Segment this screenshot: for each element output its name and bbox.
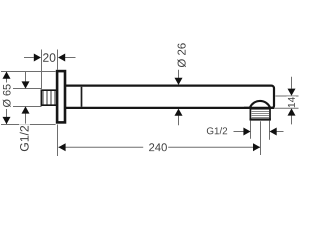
label: 20 — [42, 52, 57, 64]
wire: dim 240 line — [58, 146, 260, 148]
wire: pipe top extension — [13, 88, 42, 90]
arrow: G1/2 right outer (points left) — [270, 128, 277, 136]
wall flange escutcheon — [57, 71, 65, 122]
wire: G1/2 right extension left — [250, 121, 252, 139]
label: dia 65 (rotated) — [1, 83, 13, 110]
arrow: dia 65 bottom (points down) — [3, 117, 11, 124]
wire: dia 65 extension bottom — [1, 124, 56, 126]
wire: dim 240 extension left — [57, 125, 59, 157]
wire: dia 26 lower leader — [178, 115, 180, 126]
threaded wall pipe G1/2 — [41, 90, 56, 105]
shower arm tube body — [65, 86, 274, 108]
wire: dim 14 extension top — [275, 95, 298, 97]
label: dia 26 (rotated) — [177, 43, 185, 67]
wire: dim 14 upper tail — [291, 77, 293, 89]
wire: dim 14 lower tail — [291, 115, 293, 124]
wire: dia 65 extension top — [1, 71, 56, 73]
label: 240 — [143, 141, 168, 153]
wire: dim 20 right tail — [65, 57, 76, 59]
arrow: dim 14 top (points down) — [288, 89, 296, 96]
wire: G1/2 left lower leader — [25, 112, 27, 124]
wire: dim 14 extension bottom — [274, 107, 299, 109]
arrow: G1/2 right inner (points right) — [243, 128, 250, 136]
arrow: dim 240 left (points left) — [58, 143, 65, 151]
arrow: dim 20 left (points right) — [34, 54, 41, 62]
arrow: dia 65 top (points up) — [3, 72, 11, 79]
arrow: dim 20 right (points left) — [58, 54, 65, 62]
arrow: dia 26 bottom (points up) — [175, 109, 183, 116]
wire: G1/2 right leader tail — [234, 131, 245, 133]
outlet thread block G1/2 — [250, 109, 271, 120]
arrow: G1/2 left upper (points down) — [22, 81, 30, 88]
arrow: G1/2 left lower (points up) — [22, 106, 30, 113]
wire: dim 20 extension right — [57, 50, 59, 70]
label: 14 (rotated) — [287, 96, 297, 107]
label: G1/2 left (rotated) — [19, 124, 30, 154]
arrow: dim 240 right (points right) — [253, 143, 260, 151]
arrow: dia 26 top (points down) — [175, 78, 183, 85]
wire: G1/2 right outer tail — [276, 131, 284, 133]
wire: pipe bottom extension — [13, 106, 42, 108]
wire: dim 20 left tail — [24, 57, 34, 59]
wire: dim 20 extension left — [41, 50, 43, 90]
arrow: dim 14 bottom (points up) — [288, 108, 296, 115]
wire: tube bottom line over dome — [244, 107, 274, 109]
wire: G1/2 left upper leader — [25, 72, 27, 84]
outlet dome at right end — [250, 101, 270, 108]
wire: joint line between nut and tube — [81, 87, 83, 107]
wire: dia 65 dimension line — [6, 71, 8, 124]
wire: G1/2 right extension right — [269, 121, 271, 140]
label: G1/2 right — [207, 127, 227, 134]
wire: dim 240 extension right (outlet centerline) — [260, 121, 262, 155]
wire: dia 26 upper leader — [178, 70, 180, 79]
